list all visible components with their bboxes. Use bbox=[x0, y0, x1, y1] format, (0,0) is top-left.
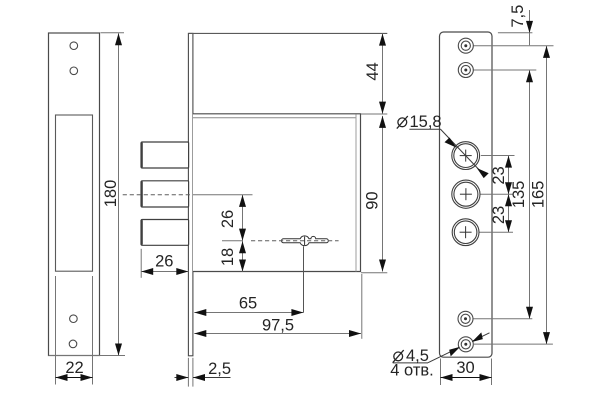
faceplate strip (edge view) bbox=[188, 33, 193, 355]
svg-text:4 отв.: 4 отв. bbox=[390, 362, 433, 380]
svg-text:180: 180 bbox=[102, 180, 120, 208]
dimension 97,5 right extension bbox=[361, 274, 363, 339]
svg-text:15,8: 15,8 bbox=[410, 113, 442, 131]
dimension 23 lower arrows bbox=[505, 194, 512, 206]
screw hole top 1 bbox=[70, 42, 78, 50]
dimension 2,5 extension lines bbox=[187, 358, 189, 387]
dimension 135 line bbox=[529, 70, 531, 319]
svg-text:30: 30 bbox=[456, 359, 474, 377]
dimension 22 extension lines bbox=[55, 276, 57, 385]
dimension 2,5 line bbox=[175, 377, 189, 379]
cylinder hole 3 bbox=[452, 219, 479, 246]
dimension 7,5 extension bbox=[498, 32, 533, 34]
cylinder hole 2 bbox=[452, 180, 480, 208]
diameter 15,8 leader bbox=[440, 129, 485, 176]
dimension 22 line bbox=[56, 377, 93, 379]
keyhole shape bbox=[282, 236, 329, 246]
svg-text:23: 23 bbox=[490, 206, 508, 224]
hole 5 (countersunk) bbox=[458, 337, 473, 352]
hole 4 extension bbox=[473, 318, 532, 320]
dimension 180 line bbox=[118, 33, 120, 355]
dimension 165 line bbox=[546, 46, 548, 344]
hole 4 (countersunk) bbox=[458, 311, 473, 326]
dimension 180 extension lines bbox=[101, 32, 125, 34]
dimension 26 horizontal line bbox=[141, 271, 188, 273]
screw hole bottom 1 bbox=[70, 315, 78, 323]
svg-text:18: 18 bbox=[219, 248, 237, 266]
strike plate outline bbox=[49, 33, 100, 356]
hole 1 extension bbox=[473, 45, 553, 47]
keyhole center tick bbox=[304, 237, 306, 245]
svg-text:165: 165 bbox=[530, 181, 548, 209]
keyhole extension line bbox=[303, 246, 305, 312]
svg-text:26: 26 bbox=[155, 253, 173, 271]
dimension 65 line bbox=[194, 312, 303, 314]
lock case inner cover lines bbox=[193, 117, 356, 119]
bolt 1 bbox=[141, 142, 188, 168]
hole 2 extension bbox=[473, 69, 536, 71]
svg-text:26: 26 bbox=[219, 210, 237, 228]
dimension 18 arrows bbox=[239, 241, 246, 253]
svg-text:65: 65 bbox=[239, 294, 257, 312]
top edge line bbox=[188, 32, 387, 34]
dimension 26 horizontal extension bbox=[140, 249, 142, 278]
dimension 44 line bbox=[382, 34, 384, 114]
svg-text:2,5: 2,5 bbox=[208, 360, 231, 378]
lock case outline bbox=[193, 114, 361, 272]
screw hole bottom 2 bbox=[69, 340, 77, 348]
faceplate outline bbox=[440, 32, 493, 357]
dimension 90 extension lines bbox=[361, 113, 387, 115]
keyhole centerline bbox=[251, 240, 339, 242]
dimension 26 vertical extension bbox=[193, 194, 253, 196]
bolt 2 bbox=[141, 181, 188, 207]
dimension 23 upper line bbox=[508, 156, 510, 233]
strike plate cutout bbox=[56, 115, 93, 271]
screw hole top 2 bbox=[70, 67, 78, 75]
svg-text:44: 44 bbox=[364, 62, 382, 80]
hole 5 extension bbox=[474, 343, 553, 345]
dimension 7,5 line bbox=[529, 10, 531, 45]
svg-text:97,5: 97,5 bbox=[262, 316, 294, 334]
cylinder hole extensions bbox=[481, 155, 515, 157]
dimension 26 vertical line bbox=[242, 195, 244, 272]
svg-text:23: 23 bbox=[490, 166, 508, 184]
hole 2 (countersunk) bbox=[458, 63, 473, 78]
cylinder hole 1 bbox=[452, 142, 480, 170]
dimension 30 line bbox=[441, 377, 492, 379]
dimension 97,5 line bbox=[194, 333, 361, 335]
dimension 90 line bbox=[382, 116, 384, 272]
svg-text:90: 90 bbox=[364, 191, 382, 209]
diameter 4,5 leader bbox=[428, 333, 490, 363]
hole 1 (countersunk) bbox=[458, 38, 473, 53]
dimension 30 extension lines bbox=[440, 359, 442, 386]
diameter 4,5 leader arrows bbox=[449, 347, 460, 357]
svg-text:22: 22 bbox=[65, 359, 83, 377]
bolt 2 centerline bbox=[123, 194, 192, 196]
svg-text:135: 135 bbox=[510, 181, 528, 209]
bolt 3 bbox=[141, 220, 188, 246]
svg-text:7,5: 7,5 bbox=[509, 5, 527, 28]
